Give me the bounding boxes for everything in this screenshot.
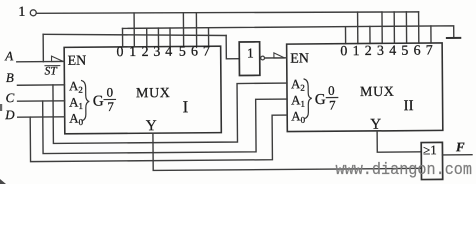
svg-text:2: 2 [142, 45, 149, 60]
svg-text:G: G [93, 94, 104, 110]
svg-text:A2: A2 [69, 78, 83, 95]
svg-text:6: 6 [191, 45, 198, 60]
svg-text:EN: EN [67, 54, 86, 69]
or-gate U4 box [421, 142, 442, 179]
svg-text:7: 7 [107, 99, 114, 114]
wire MUX II pin1 stub [357, 12, 359, 43]
wire input C to MUX I A1 [18, 100, 65, 102]
svg-text:4: 4 [389, 44, 396, 59]
svg-text:1: 1 [18, 5, 25, 20]
polarity triangle at MUX II EN [274, 53, 285, 58]
wire MUX I pin4 stub [169, 28, 171, 46]
wire input B to MUX I A2 [17, 84, 64, 86]
wire MUX I pin6 stub [195, 13, 197, 46]
svg-text:1: 1 [129, 45, 136, 60]
svg-text:7: 7 [426, 43, 433, 58]
mux U2 brace [304, 79, 312, 119]
svg-text:B: B [6, 70, 14, 85]
svg-text:C: C [5, 90, 14, 105]
svg-text:0: 0 [328, 83, 335, 98]
svg-text:II: II [404, 98, 414, 114]
mux U2 box [287, 43, 443, 132]
wire bus line 2 (logic 0 to ground) [122, 26, 453, 40]
svg-text:D: D [4, 107, 15, 122]
wire D to MUX II A0 [30, 115, 287, 162]
wire bus line 3 (A strobe line) [43, 33, 226, 37]
wire MUX II pin6 stub [418, 12, 420, 43]
wire C to MUX II A1 [43, 99, 288, 153]
wire MUX I pin5 stub [182, 13, 184, 47]
svg-text:3: 3 [377, 44, 384, 59]
inverter U3 box [239, 42, 260, 76]
mux U2 fraction bar [326, 97, 337, 99]
wire OR output to F [443, 154, 472, 156]
svg-text:www.diangon.com: www.diangon.com [336, 161, 473, 180]
svg-text:Y: Y [146, 118, 157, 134]
wire inverter output to MUX II EN [265, 57, 287, 59]
svg-text:3: 3 [153, 45, 160, 60]
svg-text:0: 0 [106, 85, 113, 100]
svg-text:7: 7 [203, 44, 210, 59]
inverter U3 output bubble [261, 56, 265, 60]
svg-text:A0: A0 [291, 108, 306, 125]
svg-text:ST: ST [45, 65, 59, 77]
svg-text:EN: EN [290, 51, 309, 66]
wire MUX I pin7 stub [207, 28, 209, 46]
wire bus line 1 (logic 1) [36, 10, 418, 15]
wire input A to MUX I EN [17, 60, 64, 62]
scan artifact bottom left corner [0, 179, 6, 184]
svg-text:A: A [4, 48, 13, 63]
svg-text:G: G [315, 92, 326, 108]
svg-text:MUX: MUX [360, 85, 395, 100]
svg-text:F: F [455, 139, 465, 154]
svg-text:0: 0 [340, 44, 347, 59]
wire MUX II pin5 stub [405, 12, 407, 43]
svg-text:Y: Y [370, 117, 381, 133]
svg-text:A2: A2 [291, 76, 305, 93]
wire MUX I pin2 stub [146, 28, 148, 46]
wire riser from line3 to EN of MUX I [42, 34, 44, 61]
node 1 terminal circle [30, 10, 36, 16]
svg-text:6: 6 [414, 44, 421, 59]
polarity triangle ST at MUX I EN [52, 56, 64, 62]
mux U1 brace [82, 80, 90, 120]
svg-text:5: 5 [401, 44, 408, 59]
svg-text:1: 1 [353, 44, 360, 59]
svg-text:7: 7 [329, 97, 336, 112]
wire MUX II pin2 stub [369, 26, 371, 43]
svg-text:1: 1 [247, 45, 254, 60]
wire MUX II pin7 stub [430, 26, 432, 43]
wire MUX I Y output to OR gate [153, 131, 421, 170]
wire MUX II Y output to OR gate [377, 131, 421, 153]
svg-text:5: 5 [179, 45, 186, 60]
svg-text:≥1: ≥1 [423, 142, 437, 157]
mux U1 box [64, 46, 221, 134]
wire from line3 to inverter input [226, 35, 239, 58]
label ST overline [45, 65, 60, 67]
mux U1 fraction bar [104, 98, 115, 100]
svg-text:A0: A0 [69, 111, 84, 128]
svg-text:I: I [183, 97, 189, 116]
svg-text:A1: A1 [69, 95, 83, 112]
wire MUX II pin4 stub [393, 12, 395, 43]
wire MUX II pin3 stub [381, 12, 383, 43]
wire MUX II pin0 stub [344, 27, 346, 44]
wire MUX I pin3 stub [157, 28, 159, 46]
svg-text:0: 0 [116, 45, 123, 60]
wire B to MUX II A2 [53, 83, 287, 143]
wire MUX I pin0 stub [121, 28, 123, 46]
wire input D to MUX I A0 [18, 116, 65, 118]
svg-text:A1: A1 [291, 92, 305, 109]
svg-text:2: 2 [365, 44, 372, 59]
scan artifact left edge [0, 104, 2, 111]
svg-text:4: 4 [165, 45, 172, 60]
wire MUX I pin1 stub [133, 13, 135, 47]
ground [447, 37, 460, 39]
svg-text:MUX: MUX [136, 86, 171, 101]
